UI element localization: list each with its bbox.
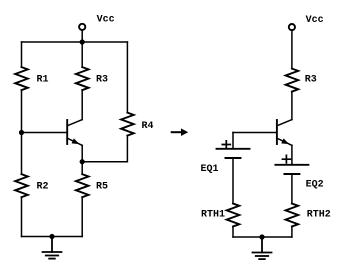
svg-text:R4: R4 [142, 121, 154, 132]
wire: base down to EQ1 [232, 133, 234, 149]
arrow (transformation) [172, 128, 189, 136]
wire: base node down to R2 [21, 133, 23, 175]
wire: R3 to collector (right) [291, 92, 293, 120]
node: base junction dot [19, 130, 24, 135]
Vcc terminal (left) [79, 24, 85, 42]
wire: top rail (left circuit) [22, 41, 128, 43]
transistor Q1 [67, 120, 82, 146]
wire: RTH1 to bottom rail [232, 227, 234, 238]
svg-text:EQ2: EQ2 [306, 180, 324, 191]
wire: rail to R3 (left) [81, 42, 83, 67]
svg-text:Vcc: Vcc [306, 15, 324, 26]
svg-text:R3: R3 [305, 74, 317, 85]
wire: R3 to collector (left) [81, 90, 83, 120]
wire: emitter down to node [81, 145, 83, 161]
wire: base wire (right) [233, 132, 277, 134]
wire: R1 to base node [21, 90, 23, 132]
resistor R3 (left) [76, 67, 89, 90]
ground (right) [253, 237, 272, 259]
resistor R3 (right) [286, 69, 299, 92]
wire: emitter node down to R5 [81, 162, 83, 175]
wire: base wire (left) [22, 132, 68, 134]
transistor Q2 [277, 120, 292, 146]
wire: emitter down to EQ2 [291, 145, 293, 164]
node: ground junction dot (right) [259, 234, 264, 239]
svg-text:EQ1: EQ1 [201, 164, 219, 175]
svg-text:Vcc: Vcc [97, 14, 115, 25]
battery EQ2 [275, 155, 308, 174]
wire: bottom rail (right) [233, 236, 292, 238]
wire: EQ2 to RTH2 [291, 174, 293, 204]
svg-text:R2: R2 [37, 181, 49, 192]
resistor RTH1 [227, 204, 240, 227]
wire: R5 to bottom rail [81, 197, 83, 236]
svg-text:R3: R3 [96, 74, 108, 85]
resistor R5 [76, 174, 89, 197]
resistor R1 [15, 67, 28, 90]
wire: EQ1 to RTH1 [232, 158, 234, 204]
battery EQ1 [217, 141, 250, 158]
svg-text:RTH1: RTH1 [201, 210, 225, 221]
resistor R4 [121, 113, 134, 136]
wire: emitter node right to R4 branch [82, 136, 127, 162]
node: emitter junction dot [80, 159, 85, 164]
resistor RTH2 [286, 204, 299, 227]
wire: left branch from rail to R1 [21, 42, 23, 67]
wire: RTH2 to bottom rail [291, 227, 293, 238]
wire: top rail down to R4 [126, 42, 128, 113]
node: ground junction dot (left) [49, 234, 54, 239]
svg-text:R1: R1 [37, 74, 49, 85]
wire: bottom rail (left) [22, 236, 83, 238]
svg-text:RTH2: RTH2 [307, 210, 331, 221]
resistor R2 [15, 174, 28, 197]
ground (left) [43, 237, 62, 259]
wire: R2 to bottom rail [21, 197, 23, 236]
Vcc terminal (right) [289, 24, 295, 69]
svg-text:R5: R5 [96, 181, 108, 192]
node: Vcc junction dot (left) [80, 39, 85, 44]
